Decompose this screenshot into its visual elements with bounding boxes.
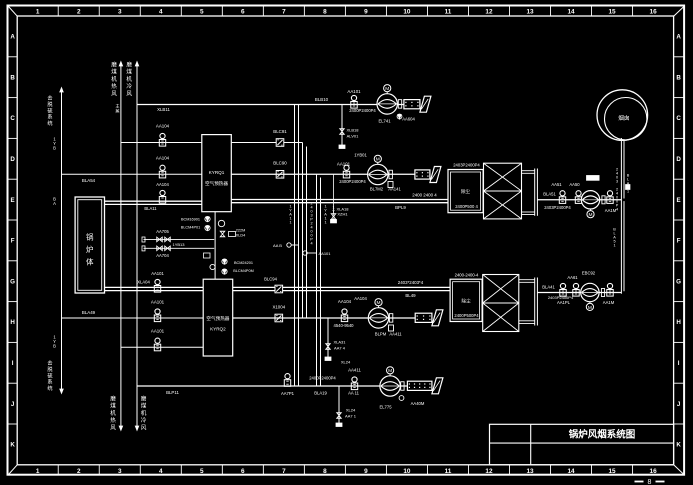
svg-text:9: 9 [364,9,368,16]
svg-text:A: A [676,34,681,41]
svg-text:XLA04: XLA04 [137,280,150,285]
svg-text:锅炉风烟系统图: 锅炉风烟系统图 [569,429,636,441]
svg-text:KYRQ2: KYRQ2 [210,327,226,332]
svg-text:脱: 脱 [47,365,53,373]
svg-text:B: B [53,344,56,349]
svg-text:16: 16 [650,9,658,16]
svg-text:15: 15 [609,468,617,475]
svg-text:XLB11: XLB11 [157,107,170,112]
svg-text:XZH1: XZH1 [337,212,348,217]
svg-text:6: 6 [241,9,245,16]
svg-text:系: 系 [47,378,52,386]
svg-text:C: C [10,115,15,122]
svg-text:KYRQ1: KYRQ1 [209,170,225,175]
svg-text:G: G [676,278,681,285]
svg-text:风: 风 [110,424,116,431]
svg-text:1YB13: 1YB13 [172,242,185,247]
svg-text:2400 2400 4: 2400 2400 4 [412,193,437,198]
svg-text:机: 机 [141,409,147,417]
svg-text:煤: 煤 [126,68,132,76]
svg-text:M: M [588,305,592,311]
svg-text:AA40M: AA40M [411,401,425,406]
svg-text:11: 11 [445,9,452,16]
svg-text:5: 5 [200,9,204,16]
svg-text:2400-2400-4: 2400-2400-4 [455,273,479,278]
svg-text:AA104: AA104 [156,182,169,187]
svg-text:BLA51: BLA51 [543,192,556,197]
svg-text:13: 13 [526,9,534,16]
svg-text:M: M [589,212,593,218]
svg-text:BLA11: BLA11 [144,206,157,211]
svg-text:磨: 磨 [110,395,116,403]
svg-text:AA1PL: AA1PL [557,300,571,305]
svg-text:AA61: AA61 [567,275,578,280]
svg-text:AA101: AA101 [318,251,331,256]
svg-text:H: H [676,319,681,326]
svg-text:2: 2 [77,468,81,475]
svg-text:AA7 4: AA7 4 [334,346,346,351]
svg-text:16: 16 [650,468,658,475]
svg-text:E: E [11,197,15,204]
svg-text:AA50: AA50 [569,182,580,187]
svg-text:BPL9: BPL9 [395,205,406,210]
svg-text:冷: 冷 [126,82,132,90]
svg-text:3: 3 [118,9,122,16]
svg-text:蒸: 蒸 [115,107,119,114]
svg-text:1: 1 [36,468,40,475]
svg-text:脱: 脱 [47,100,53,108]
svg-text:1: 1 [627,190,629,194]
svg-text:热: 热 [110,416,116,424]
svg-text:A: A [53,201,56,206]
svg-text:BLC94: BLC94 [264,277,277,282]
svg-text:6: 6 [241,468,245,475]
svg-text:磨: 磨 [111,61,117,69]
svg-text:磨: 磨 [126,61,132,69]
svg-text:B: B [10,74,15,81]
svg-text:13: 13 [526,468,534,475]
svg-text:K: K [676,442,681,449]
svg-text:2400P500P4: 2400P500P4 [454,313,479,318]
svg-text:机: 机 [111,75,117,83]
svg-text:C: C [676,115,681,122]
svg-text:AA104: AA104 [354,296,367,301]
svg-text:M: M [376,157,380,163]
svg-text:XLD4: XLD4 [236,234,246,238]
svg-text:风: 风 [126,90,132,97]
svg-text:冷: 冷 [141,416,147,424]
svg-text:I: I [678,360,680,367]
svg-text:AA101: AA101 [151,271,164,276]
svg-text:热: 热 [111,82,117,90]
svg-text:AA411: AA411 [389,332,402,337]
svg-text:BLCM4P01: BLCM4P01 [181,226,200,230]
svg-text:统: 统 [47,384,52,392]
svg-text:AA411: AA411 [348,368,361,373]
svg-text:风: 风 [111,90,117,97]
svg-text:10: 10 [403,9,411,16]
svg-text:D: D [676,156,681,163]
svg-text:硫: 硫 [47,371,52,379]
svg-text:煤: 煤 [141,402,147,410]
svg-text:AA704: AA704 [156,253,169,258]
svg-text:烟囱: 烟囱 [618,114,629,122]
svg-text:1: 1 [289,221,291,225]
svg-text:AA101: AA101 [151,329,165,334]
svg-text:14: 14 [567,468,575,475]
svg-text:AA141: AA141 [388,187,401,192]
svg-text:EBC92: EBC92 [582,271,596,276]
svg-text:XL24: XL24 [341,360,351,365]
svg-text:M: M [385,86,389,92]
svg-text:5: 5 [200,468,204,475]
svg-text:BCM16901: BCM16901 [181,218,200,222]
svg-text:除尘: 除尘 [461,188,471,194]
svg-text:XLA31: XLA31 [333,340,346,345]
svg-text:BLPM: BLPM [375,332,387,337]
svg-text:1YB01: 1YB01 [354,153,367,158]
svg-text:AA101: AA101 [337,162,351,167]
svg-text:去: 去 [47,94,52,102]
svg-text:4: 4 [616,208,618,212]
svg-text:AA7P1: AA7P1 [281,391,295,396]
svg-text:A: A [10,34,15,41]
svg-text:1: 1 [613,244,615,248]
svg-text:AA101: AA101 [347,89,361,94]
svg-text:AA104: AA104 [338,299,352,304]
svg-text:7: 7 [282,468,286,475]
svg-text:3: 3 [118,468,122,475]
svg-text:8: 8 [323,9,327,16]
svg-text:12: 12 [485,9,493,16]
svg-text:12: 12 [485,468,493,475]
svg-text:AA1M: AA1M [603,300,615,305]
svg-text:系: 系 [47,113,52,121]
svg-text:2400P500 4: 2400P500 4 [455,204,478,209]
svg-text:4: 4 [159,468,163,475]
svg-text:BLA49: BLA49 [82,310,96,315]
svg-text:M: M [377,300,381,306]
svg-text:F: F [11,238,15,245]
svg-text:BLC91: BLC91 [273,129,287,134]
svg-text:XL24: XL24 [346,408,356,413]
svg-text:EL775: EL775 [379,405,392,410]
svg-text:AA B: AA B [273,243,282,248]
svg-text:BLP11: BLP11 [166,390,179,395]
svg-text:BCM24201: BCM24201 [234,261,253,265]
svg-text:空气预热器: 空气预热器 [206,315,229,322]
svg-text:BLCM4P0M: BLCM4P0M [233,269,253,273]
svg-text:机: 机 [126,75,132,83]
svg-text:11: 11 [445,468,452,475]
svg-text:8: 8 [323,468,327,475]
svg-text:EL741: EL741 [378,119,391,124]
svg-text:B: B [53,146,56,151]
svg-text:I: I [12,360,14,367]
svg-text:BL49: BL49 [405,293,416,298]
svg-text:8: 8 [648,479,652,485]
svg-text:BLB10: BLB10 [315,97,329,102]
svg-text:锅: 锅 [86,232,94,242]
svg-text:E: E [677,197,681,204]
svg-text:AA705: AA705 [156,229,169,234]
svg-text:统: 统 [47,119,52,127]
svg-text:AA7 1: AA7 1 [345,414,357,419]
svg-text:2400P2400P4: 2400P2400P4 [349,108,376,113]
svg-text:ALV01: ALV01 [347,134,359,139]
svg-text:7: 7 [282,9,286,16]
svg-text:2403P2400P4: 2403P2400P4 [548,295,574,300]
svg-text:4540-9540: 4540-9540 [333,323,354,328]
svg-text:AA101: AA101 [151,300,165,305]
svg-text:2403P2400P4: 2403P2400P4 [453,163,480,168]
svg-text:J: J [677,401,681,408]
svg-text:2403*2403*4: 2403*2403*4 [398,280,424,285]
svg-text:机: 机 [110,409,116,417]
svg-text:除尘: 除尘 [461,298,471,304]
svg-text:炉: 炉 [86,244,94,254]
svg-text:空气预热器: 空气预热器 [205,180,228,187]
svg-text:BL7M2: BL7M2 [370,187,384,192]
svg-text:14: 14 [567,9,575,16]
svg-text:AA104: AA104 [156,124,170,129]
svg-text:9: 9 [364,468,368,475]
svg-text:AA 11: AA 11 [348,391,360,396]
svg-text:4: 4 [310,242,312,246]
svg-text:1: 1 [36,9,40,16]
svg-text:X1004: X1004 [272,305,285,310]
svg-text:体: 体 [86,257,94,267]
svg-text:M: M [388,368,392,374]
svg-text:煤: 煤 [110,402,116,410]
svg-text:煤: 煤 [111,68,117,76]
svg-text:D: D [10,156,15,163]
svg-text:AA104: AA104 [156,156,170,161]
svg-text:BLC90: BLC90 [273,161,287,166]
svg-text:3: 3 [616,180,618,184]
svg-text:去: 去 [47,359,52,367]
svg-text:1: 1 [324,221,326,225]
svg-text:硫: 硫 [47,106,52,114]
svg-text:K: K [10,442,15,449]
svg-text:2400P2400P4: 2400P2400P4 [309,376,336,381]
svg-text:风: 风 [141,424,147,431]
svg-text:BLA19: BLA19 [314,391,327,396]
svg-text:J: J [11,401,15,408]
svg-text:BLA54: BLA54 [82,178,96,183]
svg-text:AA1M: AA1M [605,208,617,213]
svg-text:G: G [10,278,15,285]
svg-text:2: 2 [77,9,81,16]
svg-text:XLB18: XLB18 [346,128,359,133]
svg-text:H: H [10,319,15,326]
svg-text:BLA41: BLA41 [542,285,555,290]
svg-text:B: B [676,74,681,81]
svg-text:4: 4 [159,9,163,16]
svg-text:2403P2400P4: 2403P2400P4 [544,205,571,210]
svg-text:222M: 222M [236,229,246,233]
svg-text:F: F [677,238,681,245]
svg-text:AA51: AA51 [551,182,562,187]
svg-text:15: 15 [609,9,617,16]
svg-text:10: 10 [403,468,411,475]
svg-text:磨: 磨 [141,395,147,403]
svg-text:AA604: AA604 [402,117,415,122]
svg-text:2400P2400P4: 2400P2400P4 [339,179,366,184]
